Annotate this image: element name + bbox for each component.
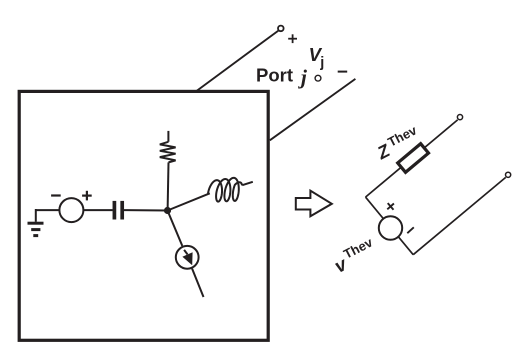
wire inductor lead <box>242 182 253 185</box>
terminal plus (open circle) <box>278 26 284 32</box>
port lead plus <box>197 31 279 91</box>
capacitor C <box>114 201 122 220</box>
voltage source v_Thev <box>379 200 414 240</box>
wire to v_Thev source <box>366 197 414 255</box>
ground <box>28 209 44 236</box>
wire current source lead <box>192 269 203 297</box>
wire node to inductor <box>168 193 210 210</box>
port lead minus <box>270 79 356 140</box>
label Vj <box>309 44 325 71</box>
terminal 1 Thevenin (open circle) <box>457 115 462 120</box>
terminal 2 Thevenin (open circle) <box>506 172 511 177</box>
minus sign label <box>338 71 348 73</box>
wire capacitor to node <box>124 209 168 211</box>
label Port j <box>256 64 308 89</box>
port reference circle <box>315 75 321 81</box>
wire node to resistor <box>167 162 170 210</box>
resistor R <box>160 131 176 163</box>
wire Z_Thev branch <box>366 120 458 197</box>
inductor L (coil) <box>208 178 242 202</box>
wire ground to source <box>36 209 60 211</box>
wire node to current source <box>168 211 183 246</box>
svg-text:j: j <box>319 55 324 71</box>
impedance Z_Thev (box) <box>398 144 429 173</box>
voltage source VS <box>51 191 92 222</box>
implication block arrow <box>296 191 332 217</box>
current source IS <box>176 246 199 269</box>
node junction dot <box>164 207 171 214</box>
wire source to capacitor <box>83 209 112 211</box>
network box <box>19 91 268 340</box>
plus sign label <box>288 34 297 43</box>
label v_Thev <box>329 234 381 277</box>
wire to terminal 2 <box>413 177 506 254</box>
label Z_Thev <box>372 122 424 163</box>
svg-text:Port: Port <box>256 64 293 85</box>
